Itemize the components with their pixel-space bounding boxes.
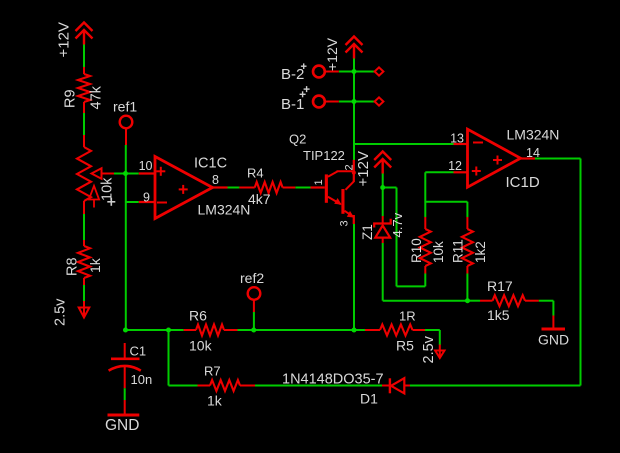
svg-text:GND: GND <box>105 417 139 434</box>
svg-text:ref1: ref1 <box>113 99 137 115</box>
svg-text:4k7: 4k7 <box>248 191 271 207</box>
svg-text:Q2: Q2 <box>289 132 306 147</box>
svg-text:+12V: +12V <box>324 37 340 71</box>
svg-text:B-2: B-2 <box>281 66 304 83</box>
svg-text:+12V: +12V <box>355 151 372 186</box>
svg-text:R4: R4 <box>247 165 264 180</box>
svg-text:LM324N: LM324N <box>507 127 560 143</box>
svg-text:R17: R17 <box>487 278 513 294</box>
svg-text:2.5v: 2.5v <box>421 335 437 363</box>
svg-text:1R: 1R <box>399 309 416 324</box>
svg-text:13: 13 <box>450 132 464 146</box>
svg-text:R10: R10 <box>409 238 424 263</box>
svg-text:2.5v: 2.5v <box>53 298 69 326</box>
svg-text:+12V: +12V <box>56 22 73 57</box>
svg-text:10n: 10n <box>131 372 153 387</box>
svg-text:9: 9 <box>143 190 150 204</box>
svg-text:1k5: 1k5 <box>487 307 510 323</box>
svg-text:LM324N: LM324N <box>198 202 251 218</box>
svg-text:GND: GND <box>538 332 569 348</box>
svg-text:3: 3 <box>339 220 351 226</box>
svg-text:10k: 10k <box>189 338 213 354</box>
svg-text:ref2: ref2 <box>240 270 264 286</box>
svg-text:R8: R8 <box>65 257 81 276</box>
svg-text:47k: 47k <box>89 85 105 109</box>
svg-text:C1: C1 <box>130 344 147 359</box>
svg-text:10k: 10k <box>431 241 446 263</box>
svg-text:1k: 1k <box>207 393 223 409</box>
svg-text:B-1: B-1 <box>281 96 304 113</box>
svg-text:1k2: 1k2 <box>473 241 488 263</box>
svg-text:R5: R5 <box>396 338 414 354</box>
svg-text:1k: 1k <box>87 257 103 273</box>
svg-text:D1: D1 <box>360 391 378 407</box>
svg-text:IC1D: IC1D <box>506 174 540 191</box>
svg-text:IC1C: IC1C <box>194 156 227 172</box>
svg-text:10: 10 <box>139 159 153 173</box>
svg-text:Z1: Z1 <box>360 224 375 240</box>
svg-text:4.7v: 4.7v <box>390 212 405 237</box>
svg-text:10k: 10k <box>100 177 116 201</box>
svg-text:R9: R9 <box>63 89 79 108</box>
svg-text:14: 14 <box>526 146 540 160</box>
svg-text:1: 1 <box>313 179 325 185</box>
svg-text:R11: R11 <box>451 239 466 263</box>
svg-text:8: 8 <box>212 173 219 187</box>
svg-text:R6: R6 <box>189 308 207 324</box>
svg-text:1N4148DO35-7: 1N4148DO35-7 <box>282 372 384 388</box>
svg-text:R7: R7 <box>204 364 221 379</box>
svg-text:2: 2 <box>344 164 356 170</box>
svg-text:12: 12 <box>448 159 462 173</box>
svg-text:TIP122: TIP122 <box>303 148 345 163</box>
